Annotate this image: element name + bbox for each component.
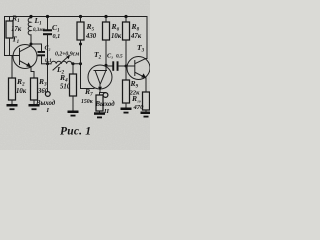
resistor R1 [6,14,22,56]
wire T3 emitter to R10 [145,78,148,92]
node rail-C1 [46,15,49,18]
ground under R7 [94,112,105,118]
ground under R10 [141,112,151,118]
ground under R4 [68,111,79,117]
resistor R8 [123,15,142,66]
terminal Выход I [35,92,56,114]
capacitor C1 [43,17,60,64]
resistor R6 [103,15,122,70]
resistor R10 [131,92,150,112]
resistor R4 [59,64,77,111]
wire node line [42,63,52,65]
wire emitter branches [100,92,106,94]
node collector junction [30,43,33,46]
ground under R9 [121,108,132,114]
wire top supply rail [5,16,148,18]
inductor L2 variable [51,52,79,76]
resistor R9 [123,66,141,108]
resistor R7 [81,87,103,112]
wire to output I [47,64,49,92]
wire L2 to base drop [72,64,94,89]
transistor T2 [88,50,112,93]
resistor R2 [9,56,27,105]
ground under R2 [7,104,18,110]
node rail-L1 [29,15,32,18]
wire T1 collector up [30,35,32,46]
resistor R5 [77,15,97,64]
wire T1 emitter to R3 [31,67,34,78]
node base R8/R9 [125,65,128,68]
capacitor C3 [106,53,135,71]
wire left rail [5,17,19,56]
terminal Выход II [95,93,116,116]
transistor T1 [12,35,37,69]
wire rail to T3 collector [146,17,148,59]
node R4 tap [72,62,75,65]
wire collector to C2 [31,43,42,45]
capacitor C2 [38,44,53,64]
ground under R3 [29,104,40,110]
node T2 collector junction [105,64,108,67]
resistor R3 [31,77,49,104]
inductor L1 [28,16,46,35]
transistor T3 [127,43,150,80]
node C-line junction [46,62,49,65]
